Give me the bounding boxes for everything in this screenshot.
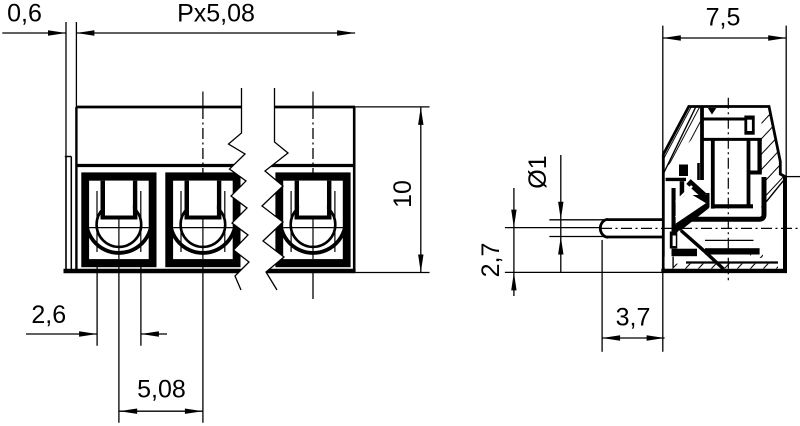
svg-text:Px5,08: Px5,08 <box>177 0 255 28</box>
svg-text:3,7: 3,7 <box>616 304 651 332</box>
svg-text:2,7: 2,7 <box>477 243 505 278</box>
svg-text:5,08: 5,08 <box>137 376 186 404</box>
svg-text:2,6: 2,6 <box>31 301 66 329</box>
svg-text:7,5: 7,5 <box>706 3 741 31</box>
svg-text:10: 10 <box>389 180 417 208</box>
svg-text:Ø1: Ø1 <box>524 155 552 188</box>
svg-text:0,6: 0,6 <box>7 0 42 27</box>
